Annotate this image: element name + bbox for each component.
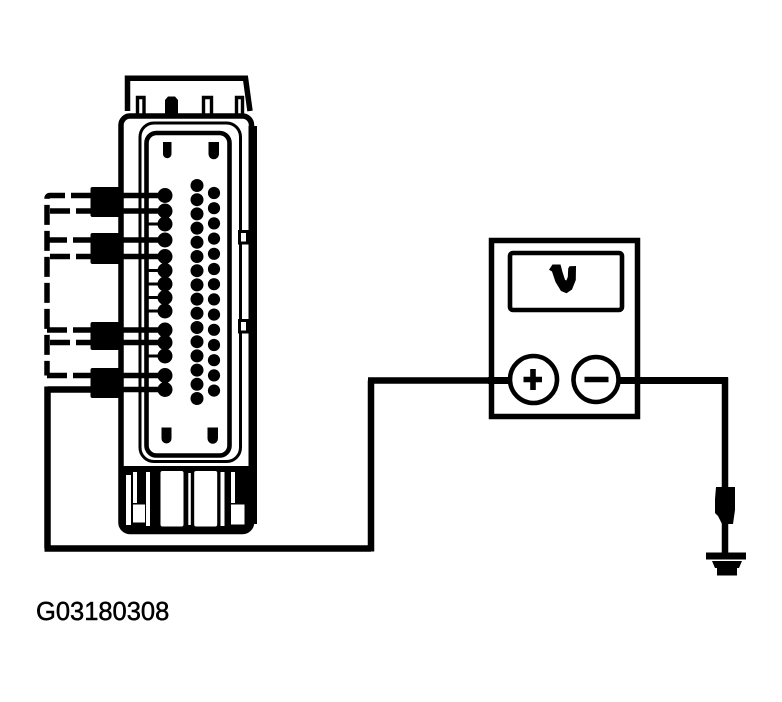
right wall bump lower [240,321,248,333]
minus sign [585,377,609,383]
wire: + terminal lead-in [488,377,512,384]
pin column right [208,187,220,397]
probe 3 wire a [121,327,165,333]
cap center tab [165,97,178,115]
latch area background [123,466,251,531]
keying slot bottom-left [162,428,172,444]
terminal minus [574,357,619,402]
probe block 2 [91,233,124,264]
pin column left with stubs [147,190,171,396]
probe 2 wire a [121,237,165,243]
connector body outline [121,116,252,532]
dashed wire probe 4 upper [47,373,91,379]
plus sign [524,369,543,390]
probe block 3 [91,322,124,350]
wire: bottom horizontal run [45,545,372,552]
latch window right [231,505,245,525]
latch slot slit 1 [126,475,131,525]
dashed bundle vertical wire [47,196,91,376]
cap latch slot B [204,98,212,114]
wire: voltmeter to ground drop [722,378,729,554]
connector inner shell outline [140,123,241,462]
dashed wire probe 2 lower [50,254,91,260]
figure label G03180308 [36,598,169,626]
latch slot slit 5 [221,472,225,526]
voltmeter display [510,253,622,310]
terminal plus [510,356,557,403]
keying slot top-right [209,142,220,159]
svg-text:G03180308: G03180308 [36,598,169,626]
probe block 4 [91,368,124,398]
dashed wire probe 3 upper [47,327,91,333]
latch slot slit 3 [146,472,150,526]
wire: horizontal to voltmeter plus terminal [368,377,510,384]
latch slot slit 6 [231,472,235,503]
probe 4 wire a [121,373,165,379]
wire: riser to voltmeter [368,381,375,552]
right wall bump upper [240,232,248,244]
probe 1 wire b [121,208,165,214]
latch big slot right [194,471,217,527]
connector top cap [128,78,251,111]
probe 2 wire b [121,254,165,260]
latch window left [133,505,145,523]
ground terminal lug [715,487,735,524]
dashed wire probe 2 upper [47,237,91,243]
wire: left vertical drop [44,387,51,549]
dashed wire probe 3 lower [50,340,91,346]
voltmeter V glyph [549,265,576,294]
probe 4 wire b [121,387,165,393]
keying slot bottom-right [208,428,219,444]
cap latch slot C [237,98,243,114]
latch slot slit 4 [188,473,191,525]
probe block 1 [91,187,124,217]
probe 1 wire a [121,193,165,199]
wire: probe 4 lower lead (horizontal) [48,386,92,393]
connector pin-field outline [147,133,230,456]
ground symbol [706,553,746,576]
voltmeter body [492,241,638,417]
wire: - terminal lead-out [616,377,728,384]
latch big slot left [161,471,184,527]
keying slot top-left [163,142,172,158]
cap latch slot A [138,98,145,114]
connector body right wall shading [249,126,258,524]
dashed wire probe 1 lower [50,208,91,214]
latch slot slit 2 [133,472,137,503]
pin column middle [191,179,204,405]
probe 3 wire b [121,340,165,346]
